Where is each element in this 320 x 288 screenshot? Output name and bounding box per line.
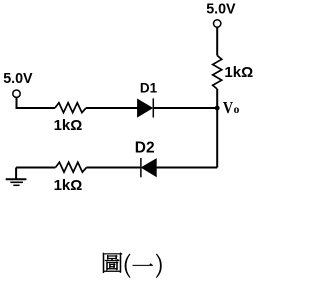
wire R3 to node Vo [216,89,218,108]
caption close paren [156,254,161,278]
svg-text:5.0V: 5.0V [206,2,236,18]
svg-text:5.0V: 5.0V [3,71,33,87]
wire D1 cathode to node Vo [153,107,217,109]
resistor R2 1k (bottom row) [55,162,86,172]
value label 1k-ohm for R2 [54,177,83,194]
svg-text:D2: D2 [135,139,155,156]
label D1 [140,81,158,96]
ground [6,168,27,186]
wire R1 to diode D1 anode [86,107,138,109]
wire D2 anode to right column [156,167,217,169]
wire top terminal to R3 [216,27,218,55]
diode D2 (triangle pointing left) [142,159,157,176]
diode D1 (anode triangle) [138,99,153,116]
value label 1k-ohm for R1 [54,117,83,134]
value label 1k-ohm for R3 [224,64,253,81]
svg-text:D1: D1 [140,81,158,96]
terminal circle top 5.0V [214,20,221,27]
wire ground to R2 [16,167,55,169]
label Vo [223,98,240,117]
terminal circle left 5.0V [13,90,20,97]
caption open paren [125,254,130,278]
svg-text:o: o [234,104,240,116]
diode D1 cathode bar [152,98,154,117]
label 5.0V (left supply) [3,71,33,87]
wire R2 to diode D2 cathode [87,167,141,169]
svg-text:V: V [223,98,234,117]
wire from left terminal down and right to R1 [17,97,55,108]
svg-text:1kΩ: 1kΩ [54,117,83,134]
label 5.0V (top supply) [206,2,236,18]
diode D2 cathode bar [140,158,142,177]
node Vo junction dot [215,106,220,111]
svg-text:1kΩ: 1kΩ [224,64,253,81]
resistor R1 1k (top row) [55,103,86,113]
caption YI (one) [133,263,154,265]
label D2 [135,139,155,156]
svg-text:1kΩ: 1kΩ [54,177,83,194]
resistor R3 1k (vertical pull-up) [213,56,222,90]
wire node Vo down to D2 row [216,108,218,168]
caption figure-1 glyph TU (CJK) [103,253,122,273]
